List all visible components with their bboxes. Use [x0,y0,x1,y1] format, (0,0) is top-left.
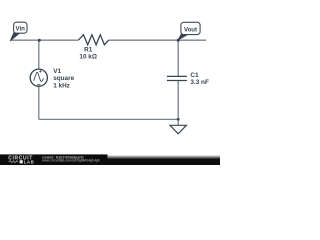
wire C1 upper branch [177,40,179,76]
svg-text:Vin: Vin [16,25,26,32]
svg-text:1 kHz: 1 kHz [53,82,70,89]
svg-text:square: square [53,75,74,82]
value 10 kOhm [79,54,97,61]
junction node Vout (top wire / C1) [177,39,180,42]
svg-text:Vout: Vout [184,27,197,34]
flag Vout [178,22,200,40]
flag Vin [10,22,27,41]
wire V1 upper branch [38,40,40,69]
value 3.3 nF [190,79,209,86]
svg-text:10 kΩ: 10 kΩ [79,54,97,61]
voltage source V1 [30,69,47,86]
wire bottom run [39,118,178,120]
svg-text:3.3 nF: 3.3 nF [190,79,209,86]
wire top-left: Vin to R1 [11,39,79,41]
watermark bar [0,154,220,165]
svg-text:V1: V1 [53,68,61,75]
wire V1 lower branch [38,86,40,119]
label V1 [53,68,61,75]
svg-text:www.circuitlab.com/c/e5q68434p: www.circuitlab.com/c/e5q68434p6 4p6 [41,158,100,162]
wire C1 lower branch [177,81,179,120]
label C1 [190,72,199,79]
label R1 [84,46,93,53]
wire top-right: R1 to right stub end [109,39,207,41]
junction node bottom (bottom wire / ground) [177,118,180,121]
ground [170,119,186,133]
resistor R1 [78,35,108,45]
capacitor C1 [167,76,187,80]
value square [53,75,74,82]
svg-text:R1: R1 [84,46,93,53]
junction node A (top wire / V1) [38,39,41,42]
value 1 kHz [53,82,70,89]
svg-text:LAB: LAB [24,159,35,164]
